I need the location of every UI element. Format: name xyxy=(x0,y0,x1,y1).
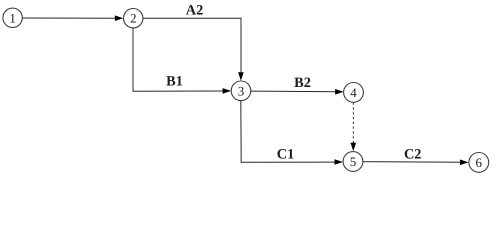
node 1 xyxy=(3,8,22,27)
svg-text:C1: C1 xyxy=(277,146,294,162)
node 4 xyxy=(344,83,364,103)
node 3 xyxy=(231,81,251,101)
svg-text:6: 6 xyxy=(476,155,483,170)
svg-text:4: 4 xyxy=(350,85,357,100)
wire A2 (2 to 3, over the top) xyxy=(143,18,244,81)
svg-text:B2: B2 xyxy=(294,75,311,91)
node 2 xyxy=(124,9,143,28)
svg-text:C2: C2 xyxy=(404,147,421,163)
svg-text:1: 1 xyxy=(9,10,16,25)
svg-text:3: 3 xyxy=(238,83,245,98)
dummy wire 4-5 (dashed) xyxy=(351,103,357,152)
wire C2 (5 to 6) xyxy=(363,160,469,166)
svg-text:A2: A2 xyxy=(186,3,203,19)
svg-text:2: 2 xyxy=(130,11,137,26)
svg-text:B1: B1 xyxy=(166,74,183,90)
wire B1 (2 down then right to 3) xyxy=(133,28,231,94)
wire B2 (3 to 4) xyxy=(251,89,344,95)
node 5 xyxy=(343,152,363,172)
svg-text:5: 5 xyxy=(350,154,357,169)
wire C1 (3 down then right to 5) xyxy=(241,101,343,165)
wire 1-2 xyxy=(22,15,123,21)
node 6 xyxy=(469,153,489,173)
